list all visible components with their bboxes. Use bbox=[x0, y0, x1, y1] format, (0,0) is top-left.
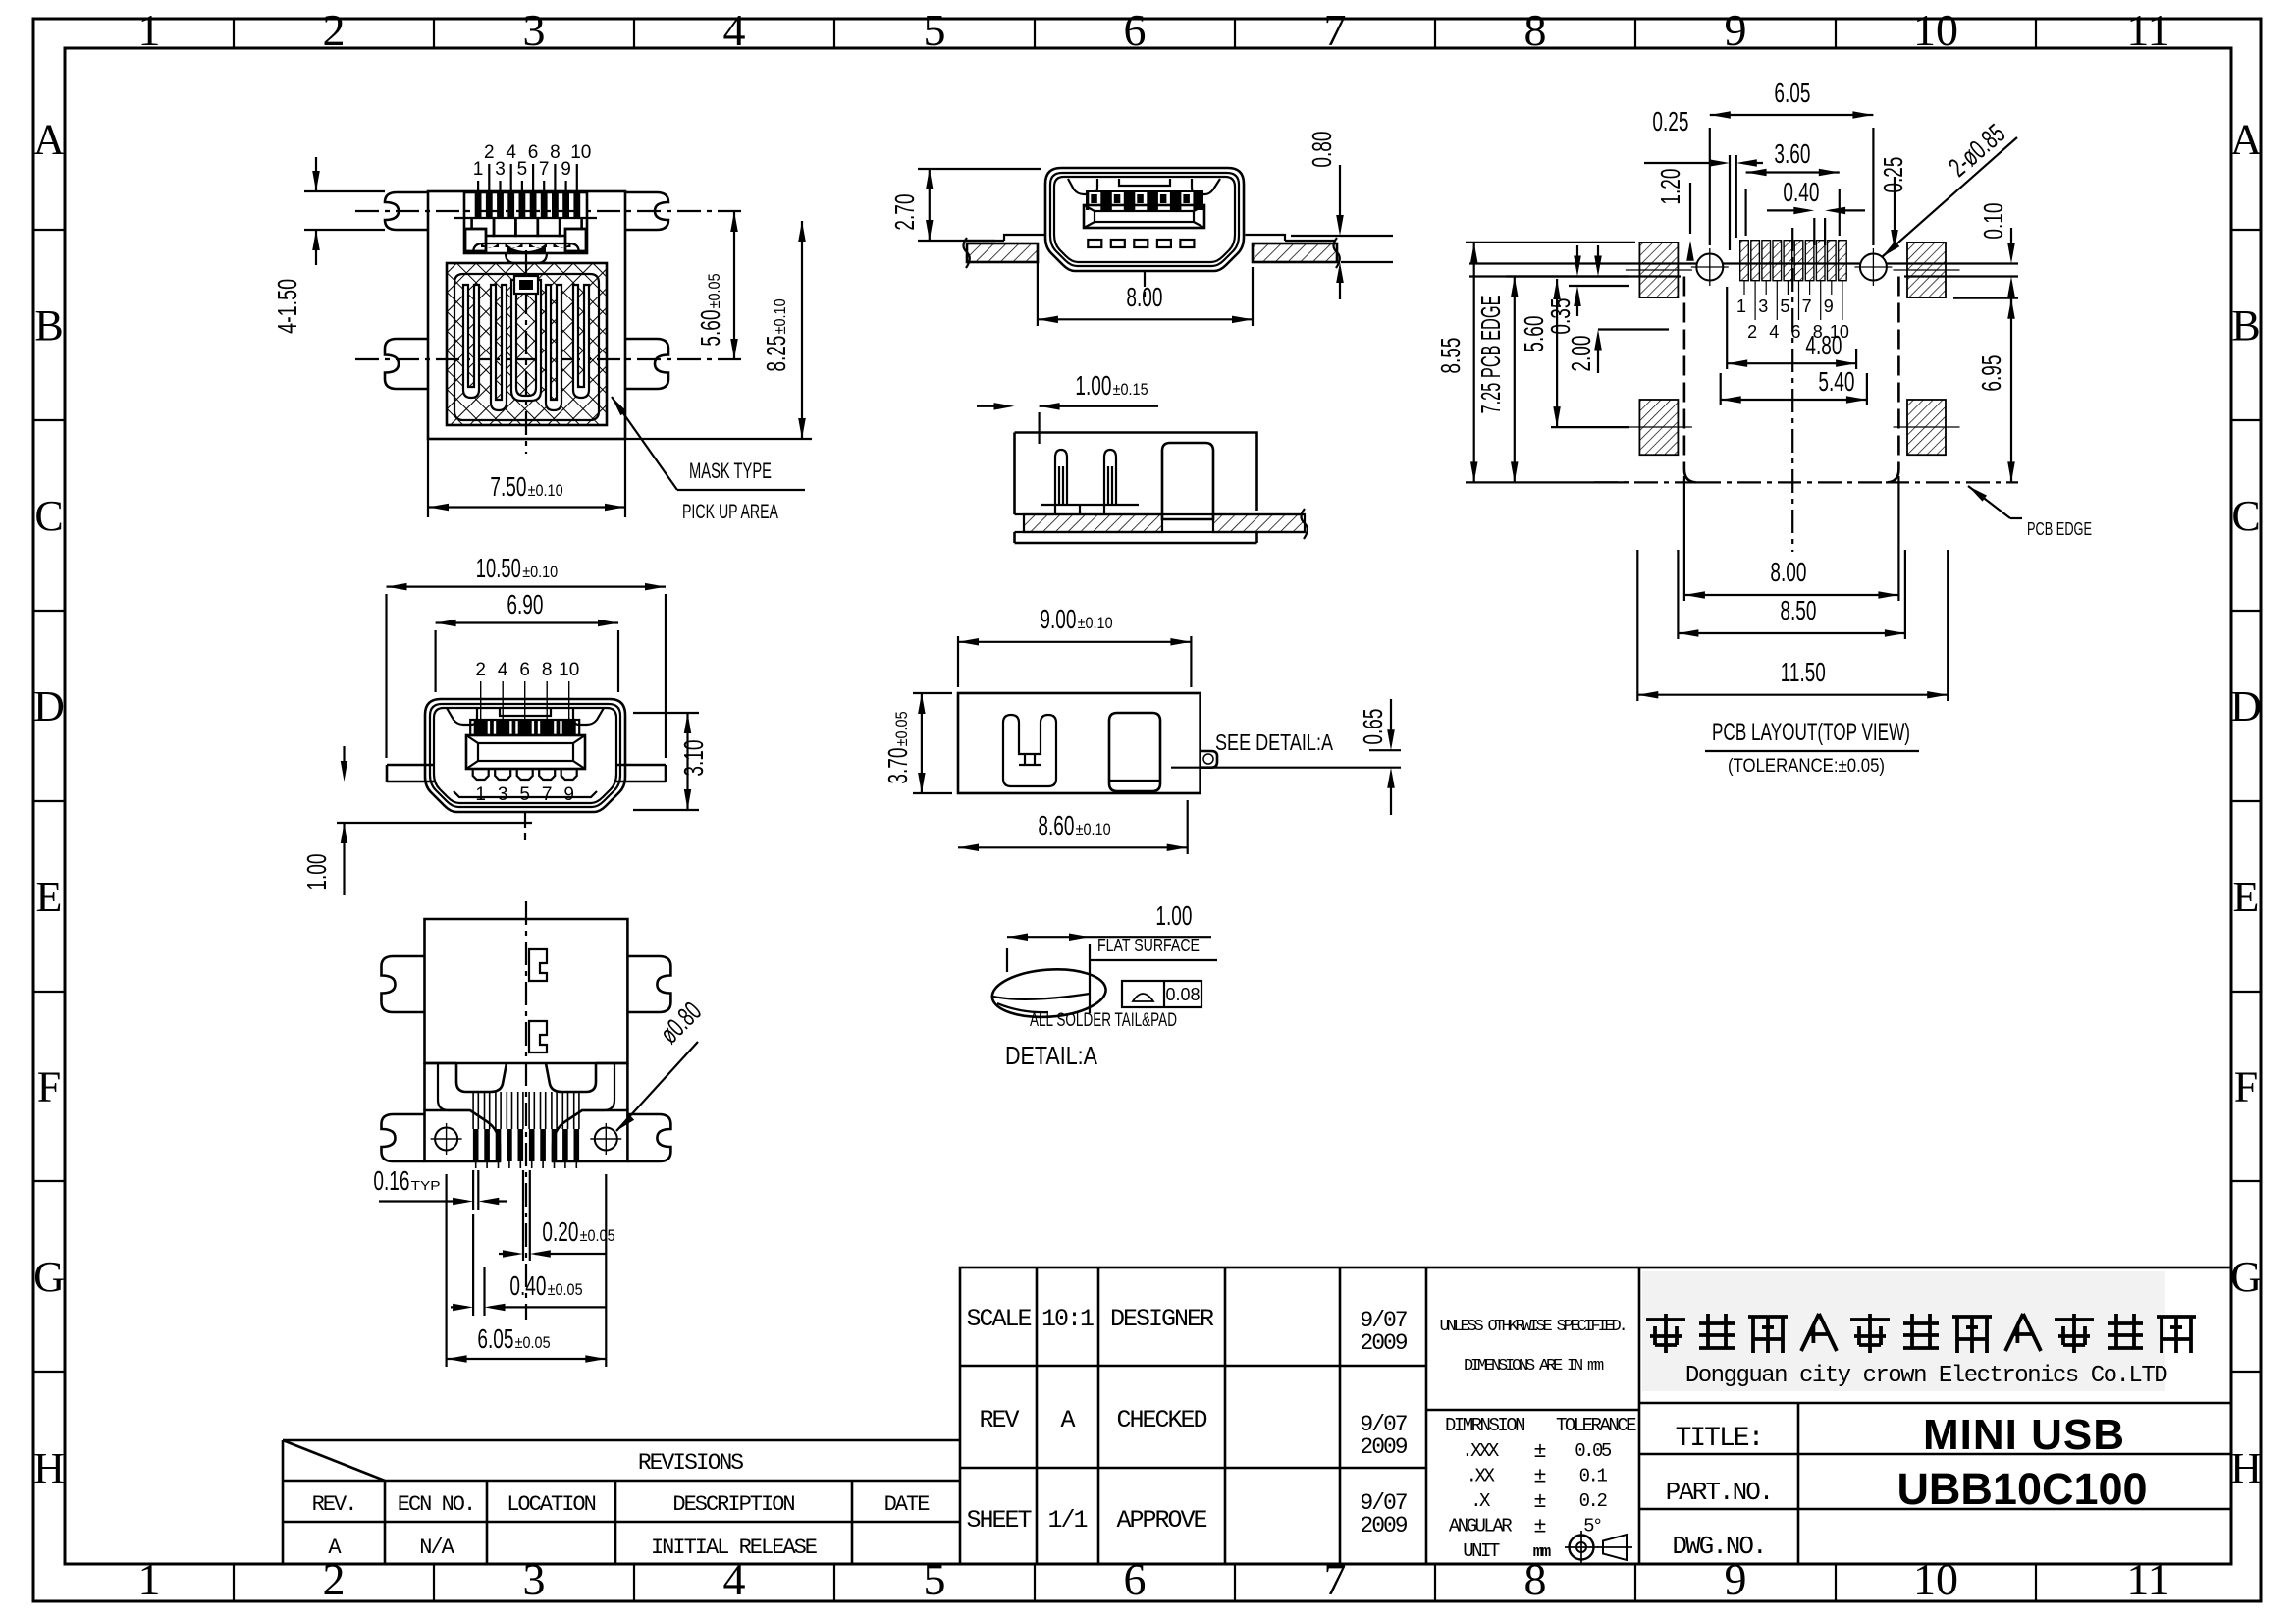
svg-text:10.50: 10.50 bbox=[476, 553, 521, 583]
svg-text:D: D bbox=[2230, 682, 2262, 730]
svg-text:6: 6 bbox=[528, 142, 539, 163]
svg-text:8.55: 8.55 bbox=[1435, 338, 1466, 374]
view3 insulator block bbox=[1162, 443, 1213, 519]
view1 dim 5.60 bbox=[733, 211, 735, 359]
svg-text:SHEET: SHEET bbox=[966, 1506, 1032, 1535]
view5 dim 10.50 bbox=[385, 594, 387, 758]
svg-text:G: G bbox=[33, 1253, 65, 1301]
svg-text:TYP: TYP bbox=[411, 1178, 441, 1193]
view5 contact pads top bbox=[470, 660, 579, 735]
detail A flatness frame bbox=[1122, 981, 1201, 1007]
svg-text:SEE DETAIL:A: SEE DETAIL:A bbox=[1215, 729, 1334, 755]
svg-text:±: ± bbox=[1533, 1465, 1546, 1489]
view6 body bbox=[958, 693, 1201, 793]
company box bbox=[1638, 1267, 1641, 1564]
view5 baseline + dim 1.00 bbox=[337, 822, 532, 824]
svg-text:9: 9 bbox=[1725, 1554, 1747, 1604]
view1 shell face detail bbox=[454, 192, 597, 263]
svg-text:6.05: 6.05 bbox=[1774, 78, 1810, 108]
view1 pin bars and numbers bbox=[473, 142, 592, 217]
pcb dim 1.20 bbox=[1689, 183, 1691, 234]
view2 shell outline bbox=[1045, 168, 1244, 271]
svg-text:±0.05: ±0.05 bbox=[515, 1334, 551, 1352]
view2 top notches bbox=[1068, 179, 1097, 194]
svg-text:TITLE:: TITLE: bbox=[1676, 1424, 1763, 1454]
pcb dim 0.25 right rot bbox=[1894, 177, 1896, 243]
view5 shell outline bbox=[425, 699, 625, 812]
svg-text:5: 5 bbox=[517, 159, 528, 180]
view5 dim 6.90 bbox=[435, 630, 437, 692]
svg-text:3.70: 3.70 bbox=[882, 748, 913, 784]
svg-text:7.25 PCB EDGE: 7.25 PCB EDGE bbox=[1475, 296, 1506, 414]
pcb layout: pin numbers bbox=[1736, 281, 1849, 342]
svg-text:0.25: 0.25 bbox=[1652, 106, 1688, 136]
svg-text:9: 9 bbox=[1824, 297, 1834, 316]
svg-text:8: 8 bbox=[542, 660, 553, 680]
svg-text:MASK TYPE: MASK TYPE bbox=[689, 458, 772, 483]
svg-text:5: 5 bbox=[924, 5, 946, 55]
tolerance table bbox=[1445, 1415, 1636, 1562]
pcb layout: pcb top edge double line bbox=[1469, 262, 2018, 264]
title block labels bbox=[966, 1305, 1407, 1538]
svg-text:3: 3 bbox=[523, 1554, 546, 1604]
svg-text:±: ± bbox=[1533, 1439, 1546, 1464]
svg-text:.XXX: .XXX bbox=[1462, 1440, 1500, 1462]
svg-text:6.95: 6.95 bbox=[1976, 355, 2006, 392]
svg-text:6.05: 6.05 bbox=[477, 1323, 513, 1354]
svg-text:1.00: 1.00 bbox=[301, 854, 332, 890]
view3 contacts bbox=[1055, 450, 1116, 505]
svg-text:1: 1 bbox=[138, 5, 161, 55]
svg-text:±0.05: ±0.05 bbox=[706, 273, 723, 308]
company highlight background bbox=[1642, 1271, 2165, 1391]
svg-text:8.60: 8.60 bbox=[1038, 810, 1074, 840]
svg-text:4: 4 bbox=[506, 142, 516, 163]
svg-text:11: 11 bbox=[2126, 1554, 2169, 1604]
svg-text:C: C bbox=[34, 492, 63, 540]
svg-text:4-1.50: 4-1.50 bbox=[272, 279, 302, 334]
svg-text:.XX: .XX bbox=[1467, 1466, 1496, 1487]
view2 pcb cross-section bbox=[967, 243, 1038, 262]
svg-text:2009: 2009 bbox=[1360, 1330, 1407, 1356]
view1 body outline bbox=[428, 191, 625, 439]
svg-text:3.60: 3.60 bbox=[1774, 138, 1810, 169]
view1 top view: centerlines bbox=[355, 210, 743, 212]
svg-text:PART.NO.: PART.NO. bbox=[1666, 1478, 1773, 1507]
svg-text:DESCRIPTION: DESCRIPTION bbox=[672, 1492, 794, 1517]
svg-text:DWG.NO.: DWG.NO. bbox=[1672, 1532, 1765, 1561]
svg-text:A: A bbox=[1060, 1406, 1075, 1434]
view8 side lugs bbox=[382, 956, 425, 1012]
svg-text:UNLESS OTHKRWISE SPECIFIED.: UNLESS OTHKRWISE SPECIFIED. bbox=[1439, 1318, 1625, 1336]
svg-text:7: 7 bbox=[1324, 1554, 1347, 1604]
pcb dim 11.50 bbox=[1636, 550, 1638, 701]
pcb dim 0.10 bbox=[2010, 228, 2012, 256]
svg-text:2: 2 bbox=[1747, 322, 1757, 342]
view5 tongue bbox=[466, 735, 585, 769]
svg-text:2: 2 bbox=[484, 142, 495, 163]
title block outline bbox=[960, 1267, 2231, 1564]
svg-text:PICK UP AREA: PICK UP AREA bbox=[682, 501, 778, 523]
svg-text:2009: 2009 bbox=[1360, 1513, 1407, 1538]
svg-text:±0.05: ±0.05 bbox=[548, 1281, 583, 1299]
svg-text:7: 7 bbox=[542, 784, 553, 805]
svg-text:DATE: DATE bbox=[884, 1492, 931, 1517]
svg-text:10: 10 bbox=[570, 142, 591, 163]
svg-text:0.40: 0.40 bbox=[1783, 177, 1819, 207]
svg-text:UBB10C100: UBB10C100 bbox=[1896, 1464, 2147, 1514]
view8 hole callout bbox=[616, 1042, 698, 1131]
svg-text:F: F bbox=[37, 1063, 61, 1111]
svg-text:7: 7 bbox=[1324, 5, 1347, 55]
svg-text:0.40: 0.40 bbox=[509, 1270, 546, 1301]
detail A dim 1.00 bbox=[1006, 948, 1008, 972]
svg-text:5: 5 bbox=[519, 784, 530, 805]
svg-text:8.25: 8.25 bbox=[761, 336, 791, 372]
svg-text:0.25: 0.25 bbox=[1878, 157, 1908, 193]
view6 dim 8.60 bbox=[1187, 800, 1189, 854]
svg-text:SCALE: SCALE bbox=[966, 1305, 1031, 1333]
pcb layout: pin pads hatched bbox=[1740, 241, 1847, 281]
company chinese name (vector strokes) bbox=[1646, 1314, 2196, 1353]
svg-text:0.16: 0.16 bbox=[373, 1165, 409, 1196]
svg-text:ECN NO.: ECN NO. bbox=[398, 1492, 474, 1517]
svg-text:DESIGNER: DESIGNER bbox=[1110, 1305, 1214, 1333]
view6 dim 3.70 bbox=[913, 692, 952, 694]
svg-text:±: ± bbox=[1533, 1515, 1546, 1539]
pcb layout: corner pads hatched bbox=[1639, 243, 1678, 297]
view5 side solder tabs bbox=[387, 764, 434, 767]
svg-text:11.50: 11.50 bbox=[1781, 657, 1826, 687]
title block left grid bbox=[960, 1267, 1426, 1564]
pcb dim 7.25 pcb edge bbox=[1506, 275, 1629, 277]
view2 dim 8.00 bbox=[1037, 250, 1039, 326]
pcb callout 2-o0.85 bbox=[1882, 137, 2017, 257]
svg-text:ALL SOLDER TAIL&PAD: ALL SOLDER TAIL&PAD bbox=[1030, 1010, 1177, 1031]
svg-text:1/1: 1/1 bbox=[1047, 1506, 1087, 1535]
view8 upper body bbox=[425, 919, 628, 1063]
svg-text:.X: .X bbox=[1470, 1490, 1491, 1512]
svg-text:2.00: 2.00 bbox=[1566, 336, 1596, 372]
svg-text:ANGULAR: ANGULAR bbox=[1449, 1516, 1512, 1537]
svg-text:10: 10 bbox=[1913, 5, 1958, 55]
projection symbols bbox=[1565, 1531, 1632, 1564]
svg-text:6: 6 bbox=[519, 660, 530, 680]
view6 dim 9.00 bbox=[957, 636, 959, 687]
view8 dim 0.16 bbox=[472, 1170, 474, 1210]
svg-text:0.08: 0.08 bbox=[1165, 985, 1200, 1004]
svg-text:A: A bbox=[33, 116, 65, 164]
pcb dim 5.40 bbox=[1720, 373, 1722, 405]
view2 tongue bbox=[1084, 205, 1204, 228]
svg-text:2009: 2009 bbox=[1360, 1434, 1407, 1460]
svg-text:5.40: 5.40 bbox=[1818, 366, 1854, 397]
svg-text:±0.15: ±0.15 bbox=[1113, 381, 1148, 399]
svg-text:1.00: 1.00 bbox=[1155, 900, 1192, 931]
svg-text:REV.: REV. bbox=[312, 1492, 356, 1517]
svg-text:0.2: 0.2 bbox=[1579, 1490, 1608, 1512]
view3 dim 1.00 bbox=[1038, 412, 1040, 444]
view1 mounting lugs bbox=[385, 192, 428, 230]
view8 lower hooks bbox=[425, 1063, 628, 1110]
svg-text:E: E bbox=[2233, 873, 2260, 921]
pcb dim 0.35 / 2.00 bbox=[1569, 285, 1629, 287]
svg-text:4: 4 bbox=[1769, 322, 1779, 342]
view3 contact feet bbox=[1041, 504, 1139, 506]
svg-text:0.10: 0.10 bbox=[1978, 203, 2008, 240]
svg-text:7.50: 7.50 bbox=[490, 471, 526, 502]
view8 dim 0.20 bbox=[522, 1170, 524, 1261]
svg-text:7: 7 bbox=[1802, 297, 1812, 316]
pcb edge callout bbox=[1968, 486, 2010, 518]
view6 block bbox=[1109, 713, 1160, 791]
pcb dim 4.80 bbox=[1726, 287, 1728, 369]
detail A blob bbox=[990, 966, 1107, 1021]
svg-text:1: 1 bbox=[473, 159, 484, 180]
svg-text:1: 1 bbox=[1736, 297, 1746, 316]
svg-text:6: 6 bbox=[1124, 5, 1147, 55]
view6 solder tail bbox=[1201, 751, 1217, 768]
view1 mask type leader bbox=[612, 397, 677, 490]
svg-text:1.20: 1.20 bbox=[1655, 169, 1685, 205]
svg-text:4: 4 bbox=[723, 1554, 746, 1604]
view8 ear holes bbox=[435, 1128, 457, 1151]
svg-text:INITIAL RELEASE: INITIAL RELEASE bbox=[651, 1536, 818, 1560]
view5 bottom slot bbox=[454, 791, 597, 797]
svg-text:0.35: 0.35 bbox=[1545, 298, 1575, 335]
svg-text:(TOLERANCE:±0.05): (TOLERANCE:±0.05) bbox=[1728, 756, 1885, 777]
column grid ticks top/bottom bbox=[234, 19, 2036, 1601]
view8 dim 0.40 bbox=[472, 1213, 474, 1316]
svg-text:LOCATION: LOCATION bbox=[507, 1492, 595, 1517]
view6 U contact bbox=[1003, 715, 1056, 786]
svg-text:PCB LAYOUT(TOP VIEW): PCB LAYOUT(TOP VIEW) bbox=[1712, 719, 1910, 746]
svg-text:C: C bbox=[2231, 492, 2260, 540]
svg-text:mm: mm bbox=[1533, 1543, 1551, 1562]
svg-text:2: 2 bbox=[475, 660, 486, 680]
svg-text:5°: 5° bbox=[1583, 1516, 1601, 1537]
svg-text:8.50: 8.50 bbox=[1780, 595, 1816, 625]
pcb dim 8.00 bbox=[1683, 476, 1685, 601]
svg-text:±: ± bbox=[1533, 1489, 1546, 1514]
svg-text:9: 9 bbox=[1725, 5, 1747, 55]
svg-text:A: A bbox=[2230, 116, 2262, 164]
pcb dim 0.25 left bbox=[1729, 155, 1731, 250]
svg-text:2.70: 2.70 bbox=[889, 194, 920, 231]
svg-text:3.10: 3.10 bbox=[678, 740, 709, 777]
row grid ticks left/right bbox=[33, 230, 2261, 1372]
svg-text:0.1: 0.1 bbox=[1579, 1466, 1608, 1487]
pcb dim 6.05 top bbox=[1709, 128, 1711, 245]
view3 body bbox=[1015, 433, 1257, 515]
svg-text:H: H bbox=[33, 1444, 65, 1492]
svg-text:REVISIONS: REVISIONS bbox=[638, 1450, 743, 1476]
pcb dim 5.60 bbox=[1556, 279, 1558, 427]
svg-text:4: 4 bbox=[723, 5, 746, 55]
svg-text:9: 9 bbox=[563, 784, 574, 805]
svg-text:6: 6 bbox=[1790, 322, 1800, 342]
pcb dim 3.60 bbox=[1744, 189, 1746, 236]
svg-text:8: 8 bbox=[550, 142, 561, 163]
svg-text:CHECKED: CHECKED bbox=[1116, 1406, 1206, 1434]
view2 dim 2.70 bbox=[918, 168, 1041, 170]
svg-text:4: 4 bbox=[498, 660, 508, 680]
svg-text:0.20: 0.20 bbox=[542, 1216, 578, 1247]
pcb dim 8.50 bbox=[1677, 550, 1679, 639]
view5 top notches bbox=[447, 708, 477, 725]
svg-text:G: G bbox=[2230, 1253, 2262, 1301]
view2 bottom tabs bbox=[1088, 240, 1194, 247]
view6 dim 0.65 bbox=[1369, 749, 1401, 751]
svg-text:11: 11 bbox=[2126, 5, 2169, 55]
view8 center hooks bbox=[529, 949, 547, 1052]
view1 dim 7.50 bbox=[427, 439, 429, 517]
svg-text:1: 1 bbox=[475, 784, 486, 805]
svg-text:DIMENSIONS ARE IN mm: DIMENSIONS ARE IN mm bbox=[1464, 1357, 1604, 1375]
pcb layout: cutout dashed outline bbox=[1683, 277, 1686, 470]
svg-text:±0.10: ±0.10 bbox=[528, 482, 563, 500]
view2 side tabs on pcb bbox=[1004, 235, 1044, 241]
svg-text:±0.05: ±0.05 bbox=[580, 1227, 615, 1245]
revisions table labels bbox=[312, 1450, 931, 1560]
view1 dim 8.25 bbox=[625, 438, 812, 440]
pcb layout: bottom pcb edge bbox=[1594, 481, 1697, 483]
svg-text:10: 10 bbox=[559, 660, 579, 680]
pcb layout: mount holes bbox=[1696, 254, 1723, 281]
view2 contact band bbox=[1086, 190, 1203, 210]
svg-text:2: 2 bbox=[323, 1554, 346, 1604]
pcb layout: vertical centerline bbox=[1791, 228, 1793, 552]
svg-text:3: 3 bbox=[1758, 297, 1768, 316]
svg-text:UNIT: UNIT bbox=[1463, 1540, 1500, 1562]
view1 connector silhouette inside mask bbox=[454, 274, 599, 420]
svg-text:±0.10: ±0.10 bbox=[772, 298, 789, 334]
svg-text:D: D bbox=[33, 682, 65, 730]
svg-text:5.60: 5.60 bbox=[695, 310, 725, 347]
svg-text:3: 3 bbox=[523, 5, 546, 55]
svg-text:10:1: 10:1 bbox=[1041, 1305, 1094, 1333]
view8 dim 6.05 bbox=[446, 1174, 448, 1367]
pcb dim 0.40 bbox=[1813, 218, 1815, 245]
view1 dim 4-1.50 bbox=[304, 190, 385, 192]
pcb dim 6.95 bbox=[1953, 297, 2018, 299]
svg-text:1.00: 1.00 bbox=[1075, 370, 1111, 401]
svg-text:0.80: 0.80 bbox=[1307, 132, 1337, 168]
svg-text:0.65: 0.65 bbox=[1358, 709, 1388, 745]
svg-text:B: B bbox=[2231, 301, 2260, 350]
svg-text:REV: REV bbox=[979, 1406, 1019, 1434]
svg-text:7: 7 bbox=[539, 159, 550, 180]
svg-text:DETAIL:A: DETAIL:A bbox=[1005, 1041, 1098, 1070]
svg-text:4.80: 4.80 bbox=[1805, 330, 1842, 360]
pcb layout: pad center ticks bbox=[1626, 270, 1960, 427]
svg-text:F: F bbox=[2234, 1063, 2258, 1111]
revisions table bbox=[283, 1440, 960, 1564]
view5 bottom tabs bbox=[473, 769, 577, 805]
svg-text:8.00: 8.00 bbox=[1770, 557, 1806, 587]
svg-text:3: 3 bbox=[495, 159, 506, 180]
svg-text:5: 5 bbox=[924, 1554, 946, 1604]
svg-text:MINI USB: MINI USB bbox=[1923, 1411, 2125, 1459]
svg-text:6: 6 bbox=[1124, 1554, 1147, 1604]
view8 bottom wings bbox=[382, 1114, 425, 1161]
view3 pcb bbox=[1024, 514, 1162, 532]
svg-text:Dongguan city crown Electronic: Dongguan city crown Electronics Co.LTD bbox=[1685, 1363, 2167, 1389]
svg-text:±0.10: ±0.10 bbox=[522, 564, 558, 581]
svg-text:2: 2 bbox=[323, 5, 346, 55]
svg-text:3: 3 bbox=[498, 784, 508, 805]
svg-text:E: E bbox=[36, 873, 63, 921]
svg-text:6.90: 6.90 bbox=[507, 589, 543, 620]
svg-text:±0.10: ±0.10 bbox=[1078, 615, 1113, 632]
view5 dim 3.10 bbox=[633, 712, 699, 714]
view8 centerline bbox=[525, 901, 527, 1320]
svg-text:APPROVE: APPROVE bbox=[1116, 1506, 1206, 1535]
svg-text:TOLERANCE: TOLERANCE bbox=[1556, 1415, 1636, 1436]
view8 solder tails bbox=[473, 1092, 579, 1168]
svg-text:H: H bbox=[2230, 1444, 2262, 1492]
svg-text:1: 1 bbox=[138, 1554, 161, 1604]
view1 crosshatched mask area bbox=[447, 263, 607, 425]
svg-text:10: 10 bbox=[1913, 1554, 1958, 1604]
svg-text:N/A: N/A bbox=[419, 1536, 454, 1560]
unless otherwise specified box bbox=[1426, 1409, 1639, 1412]
svg-text:8: 8 bbox=[1524, 5, 1547, 55]
view2 dim 0.80 bbox=[1291, 235, 1393, 237]
svg-text:9.00: 9.00 bbox=[1040, 604, 1076, 634]
view8 mounting ears bbox=[425, 1110, 501, 1161]
svg-text:FLAT SURFACE: FLAT SURFACE bbox=[1097, 936, 1200, 955]
svg-text:DIMRNSION: DIMRNSION bbox=[1445, 1415, 1524, 1436]
svg-text:±0.05: ±0.05 bbox=[893, 711, 911, 746]
svg-text:0.05: 0.05 bbox=[1575, 1440, 1612, 1462]
pcb dim 8.55 bbox=[1466, 242, 1635, 243]
svg-text:±0.10: ±0.10 bbox=[1076, 821, 1111, 838]
svg-text:PCB EDGE: PCB EDGE bbox=[2027, 519, 2092, 539]
svg-text:B: B bbox=[34, 301, 63, 350]
svg-text:5: 5 bbox=[1780, 297, 1789, 316]
